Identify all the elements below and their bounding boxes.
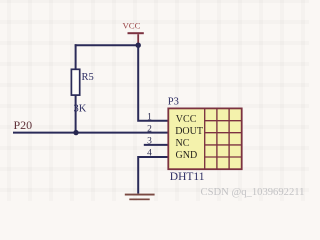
svg-text:DHT11: DHT11 [170,171,205,183]
svg-text:P20: P20 [14,118,33,132]
svg-text:DOUT: DOUT [175,126,203,137]
svg-text:2: 2 [147,124,152,134]
grid vertical line 2 [216,108,218,169]
power VCC stem [137,34,139,45]
svg-text:3: 3 [147,137,152,147]
resistor R5 [71,69,79,95]
wire P20 to pin 2 [13,132,169,134]
grid horizontal line row4 [205,156,242,158]
power VCC bar [128,32,144,34]
grid vertical line 3 [228,108,230,169]
ground bar 1 [125,194,155,196]
grid vertical line 1 [204,108,206,169]
svg-text:1: 1 [147,112,152,122]
svg-text:CSDN @q_1039692211: CSDN @q_1039692211 [201,187,305,198]
wire VCC to pin 1 [138,44,168,121]
connector P3 body [168,108,241,169]
wire left vertical to resistor [75,44,77,69]
ground bar 2 [129,199,149,201]
grid horizontal line row1 [205,120,242,122]
svg-text:NC: NC [176,138,190,149]
svg-text:P3: P3 [168,96,179,107]
junction dot P20/resistor [73,130,78,135]
junction dot top [136,43,141,48]
svg-text:GND: GND [176,150,198,161]
grid horizontal line row2 [205,132,242,134]
pin 3 stub [144,144,169,146]
svg-text:VCC: VCC [122,21,140,31]
svg-text:VCC: VCC [176,114,197,125]
wire resistor bottom [75,95,77,134]
grid horizontal line row3 [205,144,242,146]
svg-text:R5: R5 [82,72,94,83]
svg-text:4: 4 [147,149,152,159]
wire pin 4 to ground [138,157,168,194]
wire top horizontal [75,44,139,46]
